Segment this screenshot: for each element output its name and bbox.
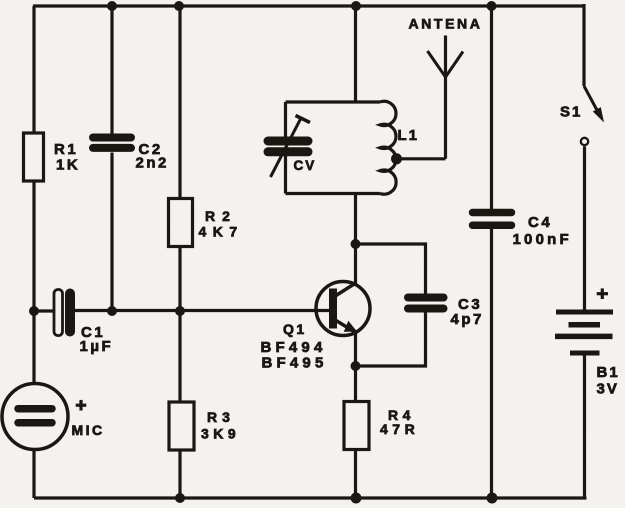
- node C4 top: [487, 1, 497, 11]
- node R2 top: [174, 1, 184, 11]
- battery B1: [555, 288, 620, 397]
- paper texture: [0, 0, 1, 1]
- wire switch to battery: [583, 147, 586, 311]
- variable capacitor CV: [268, 116, 316, 178]
- wire tank box left edge lower: [284, 155, 287, 194]
- wire left rail to MIC: [32, 311, 35, 384]
- wire right branch upper: [582, 4, 585, 86]
- resistor R4: [344, 366, 419, 498]
- wire left rail lower: [32, 449, 35, 498]
- wire base line: [34, 309, 54, 312]
- wire tank feed upper: [354, 6, 357, 102]
- wire top rail: [33, 4, 585, 7]
- node collector: [351, 239, 361, 249]
- node base line left junction: [29, 306, 39, 316]
- transistor Q1: [261, 282, 371, 372]
- node feed top: [351, 1, 361, 11]
- wire tank box bottom edge: [286, 192, 381, 195]
- wire left rail middle: [32, 181, 35, 312]
- resistor R2: [169, 6, 244, 247]
- node L1 tap: [391, 153, 402, 164]
- node C2 top: [107, 1, 117, 11]
- microphone MIC: [2, 384, 105, 450]
- inductor L1: [380, 101, 419, 194]
- switch S1: [560, 86, 604, 145]
- wire tank box top edge: [286, 100, 381, 103]
- wire collector to Q1: [354, 244, 357, 284]
- node base line center junction: [175, 306, 185, 316]
- capacitor C1: [54, 289, 113, 356]
- resistor R3: [169, 246, 240, 498]
- antenna: [409, 16, 483, 159]
- node emitter: [351, 361, 361, 371]
- wire emitter to node: [354, 333, 357, 366]
- wire tank feed lower: [354, 194, 357, 245]
- node C2 bottom: [107, 306, 117, 316]
- wire tank box left edge upper: [284, 102, 287, 138]
- wire bottom rail: [34, 496, 587, 499]
- wire antenna tap: [397, 157, 446, 160]
- node R4 bottom: [351, 493, 362, 504]
- capacitor C4: [473, 6, 572, 498]
- capacitor C3: [356, 244, 484, 366]
- resistor R1: [24, 133, 81, 181]
- capacitor C2: [93, 6, 169, 312]
- node C4 bottom: [487, 493, 498, 504]
- node R3 bottom: [175, 493, 185, 503]
- wire left rail upper: [32, 6, 35, 134]
- wire battery to bottom rail: [583, 353, 586, 498]
